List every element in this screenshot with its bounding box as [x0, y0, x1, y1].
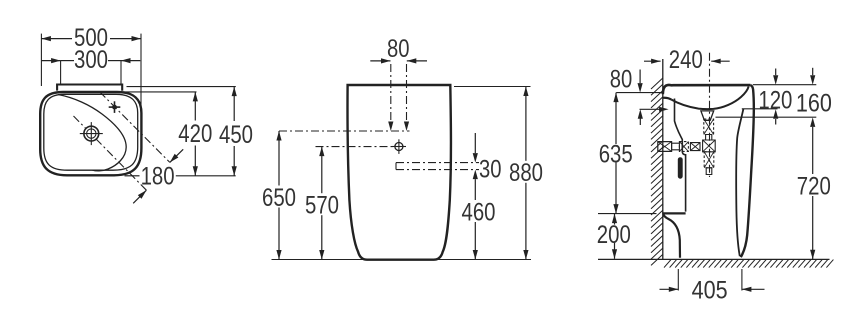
svg-text:300: 300 — [74, 46, 108, 74]
svg-text:30: 30 — [479, 155, 502, 183]
svg-text:180: 180 — [141, 163, 175, 191]
svg-text:420: 420 — [178, 120, 212, 148]
svg-text:160: 160 — [796, 90, 832, 118]
svg-text:240: 240 — [669, 46, 703, 74]
svg-text:570: 570 — [305, 192, 339, 220]
svg-text:80: 80 — [610, 65, 633, 93]
svg-text:650: 650 — [262, 184, 296, 212]
svg-text:720: 720 — [797, 172, 831, 200]
svg-text:80: 80 — [387, 35, 410, 63]
svg-text:635: 635 — [599, 140, 633, 168]
svg-text:405: 405 — [692, 276, 728, 304]
svg-text:200: 200 — [597, 221, 631, 249]
svg-text:880: 880 — [509, 159, 543, 187]
svg-text:450: 450 — [219, 121, 253, 149]
svg-text:460: 460 — [462, 198, 496, 226]
